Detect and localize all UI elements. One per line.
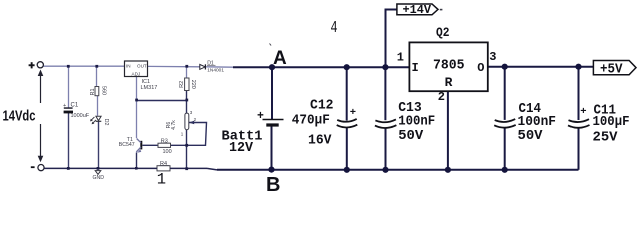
svg-text:ADJ: ADJ xyxy=(132,71,141,76)
svg-text:+14V: +14V xyxy=(403,3,432,17)
capacitor C1 xyxy=(63,103,90,120)
svg-text:12V: 12V xyxy=(229,141,254,156)
svg-text:+: + xyxy=(63,103,66,109)
svg-text:R: R xyxy=(445,75,453,90)
svg-text:OUT: OUT xyxy=(137,63,147,68)
svg-text:R4: R4 xyxy=(160,161,167,167)
+ terminal xyxy=(29,62,44,69)
svg-text:100µF: 100µF xyxy=(593,114,630,130)
svg-text:C1: C1 xyxy=(71,103,79,109)
svg-text:R3: R3 xyxy=(161,138,168,144)
wire: link down to pot R6 top xyxy=(186,100,188,113)
svg-text:1: 1 xyxy=(397,51,404,65)
- terminal xyxy=(31,165,44,171)
svg-text:R2: R2 xyxy=(179,81,185,88)
voltage flag +5V xyxy=(593,61,636,78)
arrow up to + xyxy=(38,70,44,104)
wire: R1 bottom to LED xyxy=(97,96,99,116)
wire: R1 top drop xyxy=(96,66,98,86)
wire: C13 branch xyxy=(384,67,386,120)
wire: C12 branch xyxy=(346,67,348,120)
transistor Q/T1 BC547 xyxy=(119,137,143,153)
wire: R2 bottom to link xyxy=(186,91,188,101)
wire: pot bottom down to rail xyxy=(186,130,188,169)
scan speck near flag tip xyxy=(440,9,443,11)
wire: bottom rail middle-right xyxy=(217,169,579,171)
capacitor C14 xyxy=(494,101,556,144)
svg-text:16V: 16V xyxy=(308,132,332,148)
svg-text:25V: 25V xyxy=(593,130,619,146)
svg-text:LM317: LM317 xyxy=(141,85,158,91)
node B xyxy=(268,167,274,173)
svg-text:IN: IN xyxy=(126,63,131,68)
voltage flag +14V xyxy=(397,3,438,17)
wire: riser to +14V flag xyxy=(386,10,397,68)
svg-text:14Vdc: 14Vdc xyxy=(3,108,36,124)
bottom rail (left part) xyxy=(44,168,217,170)
svg-text:BC547: BC547 xyxy=(119,142,135,148)
svg-text:+: + xyxy=(257,110,264,123)
capacitor C12 (electrolytic) xyxy=(292,97,358,148)
small stray mark near A xyxy=(270,44,272,46)
wire: slight S-bend down xyxy=(207,168,217,170)
junction dots navy xyxy=(344,64,582,173)
wire: C14 branch xyxy=(504,67,506,120)
wire: R4 to bend xyxy=(170,167,207,169)
svg-text:+: + xyxy=(580,106,586,118)
wire: - terminal to R4 xyxy=(44,167,157,169)
junction squares (left section) xyxy=(67,65,188,170)
svg-text:1000uF: 1000uF xyxy=(71,113,90,119)
svg-text:GND: GND xyxy=(93,175,105,181)
svg-text:2: 2 xyxy=(438,90,445,104)
wire: ADJ to R2/pot link xyxy=(137,100,187,102)
wire: node A to 7805 input xyxy=(233,66,409,68)
svg-text:Q2: Q2 xyxy=(436,26,450,40)
node A xyxy=(269,64,275,70)
svg-text:4.7k: 4.7k xyxy=(171,120,177,130)
wire: T1 collector drop xyxy=(136,100,138,138)
wire: LED cathode to bottom rail xyxy=(98,122,100,169)
svg-text:100nF: 100nF xyxy=(398,113,435,129)
svg-text:+: + xyxy=(350,107,356,119)
svg-text:100: 100 xyxy=(163,149,172,155)
wire: pot wiper loop xyxy=(187,123,207,146)
capacitor C13 xyxy=(375,100,435,144)
wire: C11 branch xyxy=(578,67,580,120)
resistor R3 xyxy=(158,138,172,155)
svg-text:560: 560 xyxy=(100,86,106,95)
svg-text:3: 3 xyxy=(489,50,496,64)
wire: T1 emitter to bottom rail xyxy=(136,153,138,169)
capacitor C11 (electrolytic) xyxy=(568,103,630,146)
wire: IC1 OUT through D1 to colour change xyxy=(148,65,201,67)
diode D1 1N4001 xyxy=(200,61,225,74)
svg-text:A: A xyxy=(273,48,287,69)
IC regulator U-box IC1 LM317 xyxy=(125,61,158,91)
svg-text:I: I xyxy=(412,61,419,75)
svg-text:220: 220 xyxy=(190,80,196,89)
arrow down to - xyxy=(38,124,44,162)
regulator Q2 7805 xyxy=(397,26,497,104)
svg-text:D2: D2 xyxy=(103,119,109,126)
svg-text:50V: 50V xyxy=(398,128,424,144)
svg-text:50V: 50V xyxy=(518,128,544,144)
LED D2 xyxy=(90,116,109,125)
wire: 7805 output to +5V flag xyxy=(488,66,594,68)
wire: 7805 ground pin 2 drop xyxy=(447,91,449,170)
wire: R3 right to vertical xyxy=(171,144,187,146)
resistor R2 xyxy=(179,78,196,91)
wire: R2 top drop xyxy=(186,66,188,78)
svg-text:C12: C12 xyxy=(310,97,334,113)
wire: battery bottom to node B xyxy=(271,126,273,169)
svg-text:R1: R1 xyxy=(90,88,96,95)
wire: + terminal to IC1 IN (top-left rail) xyxy=(44,65,125,67)
svg-text:7805: 7805 xyxy=(433,58,465,74)
resistor R1 xyxy=(90,86,106,96)
svg-text:1N4001: 1N4001 xyxy=(207,68,224,74)
svg-text:B: B xyxy=(266,174,280,195)
svg-text:470µF: 470µF xyxy=(292,113,330,129)
svg-text:1: 1 xyxy=(157,170,166,188)
wire: C1 bottom to rail xyxy=(68,113,70,169)
wire: ADJ pin drop xyxy=(136,77,138,101)
ground symbol GND xyxy=(93,171,105,181)
svg-text:O: O xyxy=(477,61,484,75)
svg-text:D1: D1 xyxy=(207,61,214,67)
svg-text:+5V: +5V xyxy=(600,63,623,78)
potentiometer R6 4.7k xyxy=(166,110,197,137)
wire: C1 top drop xyxy=(68,66,70,107)
svg-text:4: 4 xyxy=(331,19,338,38)
resistor R4 (in bottom rail) xyxy=(157,161,170,171)
battery Batt1 xyxy=(222,110,284,156)
wire: battery branch top xyxy=(271,67,273,119)
wire: T1 base to R3 xyxy=(142,144,158,146)
